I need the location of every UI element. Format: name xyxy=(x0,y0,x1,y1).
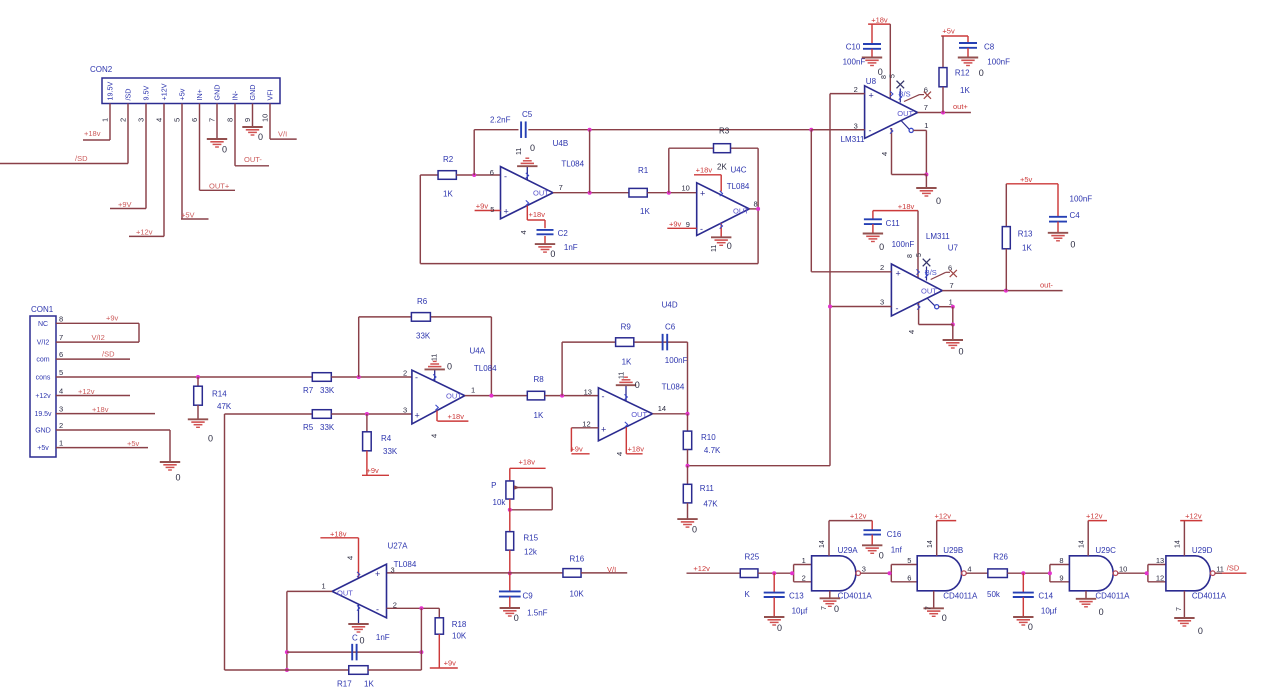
svg-text:4: 4 xyxy=(346,556,355,560)
svg-text:1K: 1K xyxy=(960,86,970,95)
svg-text:1: 1 xyxy=(924,121,928,130)
svg-text:+5v: +5v xyxy=(942,27,955,36)
svg-text:out+: out+ xyxy=(953,102,968,111)
svg-text:0: 0 xyxy=(942,613,947,623)
svg-text:1: 1 xyxy=(101,118,110,122)
svg-text:3: 3 xyxy=(391,566,395,575)
svg-text:3: 3 xyxy=(59,405,63,414)
svg-text:10µf: 10µf xyxy=(1041,607,1058,616)
svg-text:14: 14 xyxy=(819,540,826,548)
svg-text:-: - xyxy=(504,172,507,182)
svg-text:+12v: +12v xyxy=(1185,511,1202,520)
svg-text:OUT: OUT xyxy=(733,207,749,216)
svg-text:0: 0 xyxy=(834,604,839,614)
svg-text:5: 5 xyxy=(890,74,897,78)
svg-text:+12v: +12v xyxy=(136,228,153,237)
svg-text:U4A: U4A xyxy=(470,347,486,356)
svg-text:3: 3 xyxy=(862,564,866,573)
svg-text:11: 11 xyxy=(619,372,626,379)
svg-text:12: 12 xyxy=(1156,573,1164,582)
svg-text:12: 12 xyxy=(582,420,590,429)
svg-text:+: + xyxy=(504,207,509,217)
svg-text:B/S: B/S xyxy=(899,90,911,99)
svg-text:R6: R6 xyxy=(417,297,428,306)
svg-text:2: 2 xyxy=(802,573,806,582)
svg-text:7: 7 xyxy=(559,183,563,192)
svg-text:1nF: 1nF xyxy=(564,243,578,252)
svg-text:U29C: U29C xyxy=(1095,546,1116,555)
svg-text:LM311: LM311 xyxy=(926,232,950,241)
svg-text:-: - xyxy=(602,392,605,402)
svg-text:NC: NC xyxy=(38,321,48,328)
svg-text:5: 5 xyxy=(59,368,63,377)
svg-text:0: 0 xyxy=(1070,240,1075,250)
svg-text:C10: C10 xyxy=(846,43,861,52)
svg-text:U7: U7 xyxy=(948,244,959,253)
svg-text:C4: C4 xyxy=(1070,211,1081,220)
svg-text:TL084: TL084 xyxy=(727,182,750,191)
svg-text:13: 13 xyxy=(1156,556,1164,565)
svg-text:4: 4 xyxy=(907,330,916,334)
svg-text:R17: R17 xyxy=(337,680,352,689)
svg-text:0: 0 xyxy=(879,242,884,252)
svg-text:33K: 33K xyxy=(320,423,335,432)
svg-text:9.5V: 9.5V xyxy=(142,86,151,101)
svg-text:6: 6 xyxy=(490,168,494,177)
svg-text:8: 8 xyxy=(907,254,914,258)
svg-text:7: 7 xyxy=(924,103,928,112)
svg-text:4.7K: 4.7K xyxy=(704,446,721,455)
svg-text:+12v: +12v xyxy=(693,564,710,573)
svg-text:+18v: +18v xyxy=(898,202,915,211)
svg-text:R10: R10 xyxy=(701,433,716,442)
svg-text:+18v: +18v xyxy=(628,445,645,454)
svg-text:1: 1 xyxy=(59,439,63,448)
svg-text:V/I: V/I xyxy=(278,130,287,139)
svg-text:10k: 10k xyxy=(493,498,507,507)
svg-text:U4D: U4D xyxy=(662,301,678,310)
svg-text:1K: 1K xyxy=(1022,244,1032,253)
svg-text:0: 0 xyxy=(727,241,732,251)
svg-text:4: 4 xyxy=(880,152,889,156)
svg-text:C13: C13 xyxy=(789,592,804,601)
svg-text:/SD: /SD xyxy=(124,89,133,101)
svg-text:R25: R25 xyxy=(745,553,760,562)
svg-text:10: 10 xyxy=(261,114,270,122)
svg-text:4: 4 xyxy=(519,230,528,234)
svg-text:0: 0 xyxy=(692,525,697,535)
svg-text:+: + xyxy=(415,411,420,421)
svg-text:12k: 12k xyxy=(524,548,538,557)
svg-text:0: 0 xyxy=(777,623,782,633)
svg-text:9: 9 xyxy=(1059,573,1063,582)
svg-text:OUT: OUT xyxy=(533,189,549,198)
svg-text:TL084: TL084 xyxy=(474,364,497,373)
svg-text:4: 4 xyxy=(967,564,971,573)
svg-text:1: 1 xyxy=(471,386,475,395)
svg-text:2: 2 xyxy=(119,118,128,122)
svg-text:+: + xyxy=(700,189,705,199)
svg-text:0: 0 xyxy=(979,68,984,78)
svg-text:+18v: +18v xyxy=(92,405,109,414)
svg-text:C6: C6 xyxy=(665,323,676,332)
svg-text:R5: R5 xyxy=(303,423,314,432)
svg-text:19.5v: 19.5v xyxy=(34,411,52,418)
svg-text:1K: 1K xyxy=(364,680,374,689)
svg-text:GND: GND xyxy=(248,85,257,101)
svg-text:IN-: IN- xyxy=(231,90,240,100)
svg-text:33K: 33K xyxy=(416,332,431,341)
svg-text:3: 3 xyxy=(880,298,884,307)
svg-text:2: 2 xyxy=(880,263,884,272)
svg-text:10K: 10K xyxy=(452,632,467,641)
svg-text:+18v: +18v xyxy=(84,129,101,138)
svg-text:+12v: +12v xyxy=(35,393,51,400)
svg-text:10µf: 10µf xyxy=(792,607,809,616)
svg-text:7: 7 xyxy=(208,118,217,122)
svg-text:1K: 1K xyxy=(443,190,453,199)
svg-text:+9v: +9v xyxy=(106,314,119,323)
svg-text:TL084: TL084 xyxy=(662,383,685,392)
svg-text:6: 6 xyxy=(59,350,63,359)
svg-text:cons: cons xyxy=(36,375,51,382)
svg-text:B/S: B/S xyxy=(925,268,937,277)
svg-text:OUT+: OUT+ xyxy=(209,182,230,191)
svg-text:+18v: +18v xyxy=(871,16,888,25)
svg-text:10: 10 xyxy=(1119,564,1127,573)
svg-text:-: - xyxy=(869,126,872,136)
svg-text:11: 11 xyxy=(432,354,439,361)
svg-text:2K: 2K xyxy=(717,163,727,172)
svg-text:0: 0 xyxy=(936,196,941,206)
svg-text:11: 11 xyxy=(1216,564,1224,573)
svg-text:V/I: V/I xyxy=(607,565,616,574)
svg-text:8: 8 xyxy=(754,200,758,209)
svg-text:V/I2: V/I2 xyxy=(37,340,50,347)
svg-text:+9v: +9v xyxy=(570,445,583,454)
svg-text:4: 4 xyxy=(155,118,164,122)
svg-text:5: 5 xyxy=(173,118,182,122)
svg-text:+: + xyxy=(869,91,874,101)
svg-text:+12v: +12v xyxy=(1086,512,1103,521)
svg-text:11: 11 xyxy=(516,148,523,155)
svg-text:TL084: TL084 xyxy=(561,160,584,169)
svg-text:7: 7 xyxy=(1176,607,1183,611)
svg-text:+18v: +18v xyxy=(448,412,465,421)
svg-text:50k: 50k xyxy=(987,590,1001,599)
svg-text:R15: R15 xyxy=(523,534,538,543)
svg-text:+18v: +18v xyxy=(529,210,546,219)
svg-text:0: 0 xyxy=(447,362,452,372)
svg-text:CD4011A: CD4011A xyxy=(1095,592,1130,601)
svg-text:2: 2 xyxy=(59,421,63,430)
svg-text:CON1: CON1 xyxy=(31,305,54,314)
svg-text:C11: C11 xyxy=(886,219,901,228)
svg-text:C8: C8 xyxy=(984,43,995,52)
svg-text:GND: GND xyxy=(213,85,222,101)
svg-text:4: 4 xyxy=(615,452,624,456)
svg-text:11: 11 xyxy=(711,245,718,252)
svg-text:8: 8 xyxy=(59,314,63,323)
svg-text:13: 13 xyxy=(584,388,592,397)
svg-text:33K: 33K xyxy=(320,386,335,395)
svg-text:+9v: +9v xyxy=(367,466,380,475)
svg-text:1K: 1K xyxy=(534,411,544,420)
svg-text:+: + xyxy=(375,569,380,579)
svg-text:7: 7 xyxy=(821,606,828,610)
svg-text:OUT: OUT xyxy=(921,287,937,296)
svg-text:U8: U8 xyxy=(866,77,877,86)
svg-text:1K: 1K xyxy=(622,358,632,367)
svg-text:+12V: +12V xyxy=(160,83,169,100)
svg-text:+5v: +5v xyxy=(1020,175,1033,184)
svg-text:6: 6 xyxy=(907,573,911,582)
svg-text:C9: C9 xyxy=(523,592,534,601)
svg-text:14: 14 xyxy=(1175,540,1182,548)
svg-text:7: 7 xyxy=(59,333,63,342)
svg-text:+9V: +9V xyxy=(118,200,132,209)
svg-text:3: 3 xyxy=(137,118,146,122)
svg-text:out-: out- xyxy=(1040,281,1053,290)
svg-text:CD4011A: CD4011A xyxy=(838,592,873,601)
svg-text:5: 5 xyxy=(916,253,923,257)
svg-text:0: 0 xyxy=(258,132,263,142)
svg-text:100nF: 100nF xyxy=(843,58,866,67)
svg-text:VFI: VFI xyxy=(266,89,275,100)
svg-text:R8: R8 xyxy=(534,375,545,384)
svg-text:TL084: TL084 xyxy=(394,560,417,569)
svg-text:7: 7 xyxy=(950,281,954,290)
svg-text:33K: 33K xyxy=(383,447,398,456)
svg-text:14: 14 xyxy=(1079,540,1086,548)
svg-text:R13: R13 xyxy=(1018,230,1033,239)
svg-text:R26: R26 xyxy=(993,553,1008,562)
svg-text:0: 0 xyxy=(1099,607,1104,617)
svg-text:U29B: U29B xyxy=(943,546,963,555)
svg-text:CON2: CON2 xyxy=(90,65,113,74)
svg-text:1: 1 xyxy=(322,582,326,591)
svg-text:+5v: +5v xyxy=(127,439,140,448)
svg-text:47K: 47K xyxy=(217,402,232,411)
svg-text:U27A: U27A xyxy=(388,542,409,551)
svg-text:U29A: U29A xyxy=(838,546,859,555)
svg-text:3: 3 xyxy=(854,122,858,131)
svg-text:+5V: +5V xyxy=(181,211,195,220)
svg-text:CD4011A: CD4011A xyxy=(1192,592,1227,601)
svg-text:10K: 10K xyxy=(570,590,585,599)
svg-text:1: 1 xyxy=(802,556,806,565)
svg-text:5: 5 xyxy=(907,556,911,565)
svg-text:K: K xyxy=(745,590,751,599)
svg-text:-: - xyxy=(896,304,899,314)
svg-text:1K: 1K xyxy=(640,207,650,216)
svg-text:C2: C2 xyxy=(558,229,569,238)
svg-text:1.5nF: 1.5nF xyxy=(527,609,548,618)
svg-text:R1: R1 xyxy=(638,166,649,175)
svg-text:R18: R18 xyxy=(452,620,467,629)
svg-text:7: 7 xyxy=(926,606,933,610)
svg-text:C: C xyxy=(352,634,358,643)
svg-text:-: - xyxy=(415,373,418,383)
svg-text:LM311: LM311 xyxy=(841,135,865,144)
svg-text:2.2nF: 2.2nF xyxy=(490,116,511,125)
svg-text:+9v: +9v xyxy=(476,202,489,211)
svg-text:R7: R7 xyxy=(303,386,314,395)
svg-text:-: - xyxy=(376,605,379,615)
svg-text:C16: C16 xyxy=(887,530,902,539)
svg-text:OUT-: OUT- xyxy=(244,155,262,164)
svg-text:4: 4 xyxy=(59,387,63,396)
svg-text:+12v: +12v xyxy=(935,512,952,521)
svg-text:-: - xyxy=(700,224,703,234)
svg-text:8: 8 xyxy=(881,75,888,79)
svg-text:/SD: /SD xyxy=(1227,564,1240,573)
svg-text:C14: C14 xyxy=(1038,592,1053,601)
svg-text:0: 0 xyxy=(635,380,640,390)
svg-text:OUT: OUT xyxy=(337,589,353,598)
svg-text:14: 14 xyxy=(658,404,666,413)
svg-text:0: 0 xyxy=(959,347,964,357)
svg-text:+9v: +9v xyxy=(444,659,457,668)
svg-text:10: 10 xyxy=(682,184,690,193)
svg-text:2: 2 xyxy=(854,85,858,94)
svg-text:100nF: 100nF xyxy=(987,58,1010,67)
svg-text:IN+: IN+ xyxy=(195,89,204,100)
svg-text:U4C: U4C xyxy=(731,166,747,175)
svg-text:0: 0 xyxy=(879,551,884,561)
svg-text:14: 14 xyxy=(927,540,934,548)
svg-text:47K: 47K xyxy=(703,500,718,509)
svg-text:0: 0 xyxy=(514,613,519,623)
svg-text:5: 5 xyxy=(490,205,494,214)
svg-text:+5v: +5v xyxy=(37,445,49,452)
svg-text:P: P xyxy=(491,481,496,490)
svg-text:0: 0 xyxy=(360,636,365,646)
svg-text:100nF: 100nF xyxy=(892,240,915,249)
svg-text:0: 0 xyxy=(222,145,227,155)
svg-text:100nF: 100nF xyxy=(1070,195,1093,204)
svg-text:0: 0 xyxy=(1028,622,1033,632)
svg-text:R11: R11 xyxy=(700,484,715,493)
svg-text:1nF: 1nF xyxy=(376,633,390,642)
svg-text:U29D: U29D xyxy=(1192,546,1213,555)
svg-text:+5v: +5v xyxy=(178,88,187,100)
svg-text:0: 0 xyxy=(530,143,535,153)
svg-text:0: 0 xyxy=(550,249,555,259)
svg-text:19.5V: 19.5V xyxy=(106,82,115,101)
svg-text:+12v: +12v xyxy=(78,387,95,396)
svg-text:R12: R12 xyxy=(955,69,970,78)
svg-text:0: 0 xyxy=(1198,626,1203,636)
svg-text:0: 0 xyxy=(176,473,181,483)
svg-text:OUT: OUT xyxy=(446,392,462,401)
svg-text:GND: GND xyxy=(35,428,51,435)
svg-text:OUT: OUT xyxy=(631,410,647,419)
svg-text:R3: R3 xyxy=(719,127,730,136)
svg-text:V/I2: V/I2 xyxy=(92,333,105,342)
svg-text:R9: R9 xyxy=(621,323,632,332)
svg-text:CD4011A: CD4011A xyxy=(943,592,978,601)
svg-text:6: 6 xyxy=(190,118,199,122)
svg-text:/SD: /SD xyxy=(75,154,88,163)
svg-text:9: 9 xyxy=(686,220,690,229)
svg-text:3: 3 xyxy=(403,406,407,415)
svg-text:0: 0 xyxy=(208,434,213,444)
svg-text:1nf: 1nf xyxy=(891,546,903,555)
svg-text:4: 4 xyxy=(430,434,439,438)
svg-text:+18v: +18v xyxy=(519,458,536,467)
svg-text:+: + xyxy=(896,269,901,279)
svg-text:+9v: +9v xyxy=(669,220,682,229)
svg-text:/SD: /SD xyxy=(102,350,115,359)
svg-text:+18v: +18v xyxy=(696,166,713,175)
svg-text:OUT: OUT xyxy=(897,109,913,118)
svg-text:+12v: +12v xyxy=(850,512,867,521)
svg-text:R14: R14 xyxy=(212,390,227,399)
svg-text:+: + xyxy=(601,425,606,435)
svg-text:com: com xyxy=(36,357,49,364)
svg-text:R4: R4 xyxy=(381,434,392,443)
svg-text:C5: C5 xyxy=(522,110,533,119)
svg-text:U4B: U4B xyxy=(553,139,569,148)
svg-text:R2: R2 xyxy=(443,155,454,164)
svg-text:8: 8 xyxy=(226,118,235,122)
svg-text:8: 8 xyxy=(1059,556,1063,565)
svg-text:100nF: 100nF xyxy=(665,356,688,365)
svg-text:9: 9 xyxy=(243,118,252,122)
svg-text:R16: R16 xyxy=(570,555,585,564)
svg-text:2: 2 xyxy=(403,369,407,378)
